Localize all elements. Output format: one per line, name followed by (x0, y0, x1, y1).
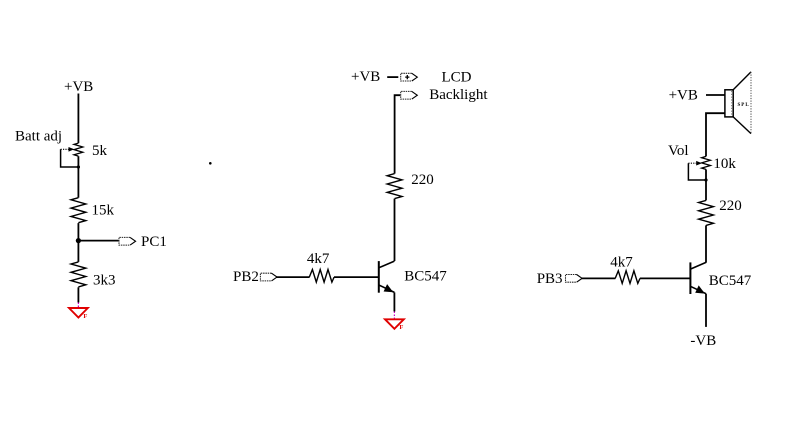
svg-text:Vol: Vol (668, 143, 689, 159)
svg-text:LCD: LCD (442, 70, 472, 86)
svg-text:-VB: -VB (690, 333, 716, 349)
svg-text:220: 220 (719, 198, 742, 214)
svg-text:Backlight: Backlight (429, 87, 488, 103)
svg-text:+VB: +VB (351, 69, 380, 85)
svg-text:PC1: PC1 (141, 234, 167, 250)
svg-text:BC547: BC547 (404, 269, 447, 285)
svg-text:Batt adj: Batt adj (15, 129, 62, 145)
svg-text:10k: 10k (713, 156, 736, 172)
svg-text:3k3: 3k3 (93, 273, 116, 289)
svg-text:4k7: 4k7 (307, 251, 330, 267)
svg-text:220: 220 (411, 172, 434, 188)
svg-text:+VB: +VB (64, 79, 93, 95)
svg-text:4k7: 4k7 (610, 254, 633, 270)
svg-text:PB2: PB2 (233, 269, 259, 285)
svg-text:+VB: +VB (669, 88, 698, 104)
svg-text:PB3: PB3 (537, 271, 563, 287)
svg-text:SPL: SPL (738, 103, 750, 108)
svg-text:15k: 15k (92, 203, 115, 219)
svg-text:BC547: BC547 (709, 273, 752, 289)
svg-text:5k: 5k (92, 143, 108, 159)
